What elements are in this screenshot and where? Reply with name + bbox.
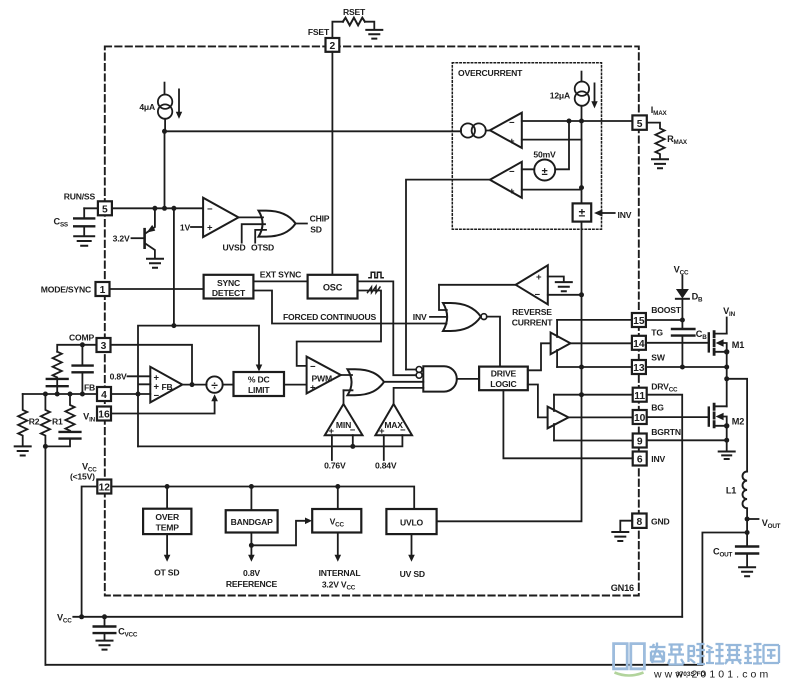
svg-text:LIMIT: LIMIT — [248, 385, 270, 395]
svg-text:LOGIC: LOGIC — [490, 379, 516, 389]
svg-text:0.8V: 0.8V — [110, 371, 127, 381]
polarity box (INV select) — [573, 203, 632, 221]
logo url text — [653, 669, 771, 681]
wire TG pin — [570, 342, 708, 345]
pin 4 FB — [84, 382, 111, 401]
svg-text:BOOST: BOOST — [651, 305, 682, 315]
wire SW node to M2/L1 — [724, 367, 747, 472]
svg-text:16: 16 — [98, 410, 110, 421]
driver buffer BG — [528, 385, 569, 441]
label VCC (bottom rail) — [57, 613, 72, 625]
svg-text:BG: BG — [651, 403, 664, 413]
svg-text:UVSD: UVSD — [222, 243, 245, 253]
pin 5 IMAX — [632, 105, 667, 130]
square wave symbol — [369, 272, 383, 278]
figure number (red) — [676, 671, 706, 678]
svg-text:TG: TG — [651, 328, 663, 338]
svg-text:INV: INV — [618, 210, 632, 220]
block OSC — [308, 275, 358, 299]
svg-text:M1: M1 — [732, 340, 744, 350]
wire BGRTN pin — [554, 439, 727, 441]
sawtooth symbol — [368, 286, 381, 292]
block % DC LIMIT — [234, 372, 285, 396]
mosfet M1 — [709, 318, 744, 370]
svg-text:5: 5 — [637, 119, 643, 130]
svg-text:±: ± — [542, 166, 548, 178]
svg-text:13: 13 — [633, 363, 645, 374]
svg-text:INTERNAL: INTERNAL — [319, 568, 361, 578]
svg-text:RUN/SS: RUN/SS — [64, 192, 96, 202]
pin 15 BOOST — [632, 305, 682, 327]
wire FORCED CONTINUOUS — [253, 291, 446, 324]
svg-text:−: − — [509, 118, 515, 129]
svg-text:OVERCURRENT: OVERCURRENT — [458, 68, 523, 78]
block VCC regulator — [312, 487, 361, 592]
svg-text:www.20101.com: www.20101.com — [653, 669, 771, 681]
svg-text:L1: L1 — [726, 486, 736, 496]
svg-text:11: 11 — [634, 391, 645, 402]
pin 9 BGRTN — [633, 427, 681, 448]
svg-text:+: + — [536, 272, 542, 283]
svg-text:0.8V: 0.8V — [243, 568, 260, 578]
logo site name (Chinese) — [650, 643, 780, 665]
resistor RMAX — [647, 123, 688, 159]
svg-text:−: − — [310, 362, 316, 373]
ground (R2) — [15, 446, 31, 455]
or-gate CHIP SD — [222, 211, 329, 253]
svg-text:OVER: OVER — [155, 512, 180, 522]
OVERCURRENT box title — [458, 68, 523, 78]
svg-text:6: 6 — [637, 455, 643, 466]
compensation cap (parallel COMP-FB) — [73, 345, 93, 394]
svg-text:MODE/SYNC: MODE/SYNC — [41, 285, 91, 295]
svg-text:5: 5 — [102, 205, 108, 216]
block DRIVE LOGIC — [479, 367, 528, 391]
svg-text:10: 10 — [634, 413, 646, 424]
wire EXT SYNC — [253, 270, 307, 282]
capacitor COUT — [713, 533, 758, 567]
svg-text:REFERENCE: REFERENCE — [226, 579, 278, 589]
wire VIN to divider — [111, 394, 218, 413]
svg-text:TEMP: TEMP — [156, 522, 180, 532]
inductor L1 — [726, 472, 747, 533]
svg-text:12μA: 12μA — [550, 91, 570, 101]
svg-text:MIN: MIN — [336, 420, 351, 430]
svg-text:CHIP: CHIP — [310, 213, 330, 223]
svg-text:EXT SYNC: EXT SYNC — [260, 270, 301, 280]
svg-text:SD: SD — [310, 225, 322, 235]
svg-text:% DC: % DC — [248, 374, 270, 384]
block SYNC DETECT — [204, 275, 254, 299]
svg-text:15: 15 — [633, 316, 645, 327]
svg-text:FB: FB — [162, 382, 173, 392]
wire 4uA to overcurrent sense — [162, 129, 461, 134]
wire DRVCC pin — [554, 395, 682, 617]
wire OSC ramp out to PWM - — [297, 291, 381, 366]
ground (M2 source) — [719, 452, 735, 460]
capacitor CSS — [54, 208, 95, 235]
label 0.76V — [324, 435, 346, 471]
wire GND pin to ground — [620, 521, 632, 531]
svg-text:−: − — [509, 167, 515, 178]
wire RUN/SS line — [84, 206, 203, 211]
ground (RMAX) — [652, 159, 668, 168]
svg-text:50mV: 50mV — [533, 149, 556, 159]
pin 14 TG — [632, 328, 663, 351]
comparator overcurrent 1 — [461, 113, 633, 148]
svg-text:FSET: FSET — [308, 27, 330, 37]
pin 6 INV — [633, 452, 666, 466]
comparator 1V (UVSD) — [180, 198, 239, 237]
comparator PWM — [307, 357, 341, 394]
svg-text:−: − — [154, 390, 160, 401]
pin 10 BG — [633, 403, 665, 425]
svg-text:1: 1 — [100, 285, 106, 296]
svg-text:GND: GND — [651, 516, 670, 526]
comparator MIN — [325, 390, 363, 437]
resistor R2 — [18, 394, 40, 445]
svg-text:±: ± — [579, 206, 586, 220]
wire pin1 to SYNC DETECT — [110, 288, 204, 290]
svg-text:−: − — [535, 290, 541, 301]
wire BG pin — [569, 416, 709, 418]
svg-text:REVERSE: REVERSE — [512, 307, 552, 317]
svg-text:OT SD: OT SD — [154, 568, 179, 578]
svg-text:SYNC: SYNC — [217, 278, 240, 288]
svg-text:1V: 1V — [180, 223, 191, 233]
pin 8 GND — [632, 514, 669, 529]
label GN16 — [611, 583, 634, 593]
svg-text:8: 8 — [637, 517, 643, 528]
svg-text:÷: ÷ — [211, 378, 218, 392]
svg-text:9: 9 — [637, 437, 643, 448]
diode DB — [676, 276, 703, 323]
compensation resistor (COMP-FB) — [53, 352, 62, 387]
wire SW pin — [557, 366, 727, 368]
wire VCC pin external — [82, 487, 98, 617]
wire EA output to COMP — [111, 345, 207, 387]
compensation cap (series) — [47, 379, 68, 394]
IC boundary dashed border — [105, 46, 639, 595]
capacitor CB — [672, 320, 707, 370]
logo book icon — [614, 644, 645, 669]
wire overcurrent comparator to and gate — [406, 180, 490, 370]
current sense symbol (double circle) — [461, 123, 486, 137]
svg-text:DRIVE: DRIVE — [491, 369, 517, 379]
svg-text:3703S FD: 3703S FD — [676, 671, 706, 678]
current source 4uA — [139, 83, 182, 132]
ground (COUT) — [739, 567, 755, 576]
block BANDGAP — [226, 487, 312, 589]
svg-text:OTSD: OTSD — [251, 243, 274, 253]
svg-text:+: + — [207, 223, 213, 234]
source 50mV — [533, 149, 556, 180]
svg-text:RSET: RSET — [343, 7, 366, 17]
pin 3 COMP — [69, 333, 110, 353]
svg-text:12: 12 — [99, 483, 111, 494]
capacitor CVCC — [94, 617, 138, 640]
wire RUN/SS node down — [173, 208, 175, 325]
wire FB sense down-left — [44, 446, 46, 664]
pin 1 MODE/SYNC — [41, 282, 110, 296]
feedforward resistor + cap — [43, 394, 81, 449]
block OVER TEMP — [143, 487, 191, 578]
nor gate (reverse current / INV / forced continuous) — [413, 285, 500, 367]
svg-text:(<15V): (<15V) — [70, 471, 95, 481]
svg-text:INV: INV — [413, 312, 427, 322]
ground (Q1) — [147, 259, 163, 268]
pin 13 SW — [632, 353, 666, 375]
label VOUT — [745, 517, 781, 531]
pin 5 RUN/SS — [64, 192, 112, 216]
ground (CVCC) — [97, 641, 113, 650]
error amp EA — [150, 367, 182, 403]
wire polarity box down to SW sense — [579, 222, 584, 395]
wire soft-start to EA + input — [136, 323, 177, 446]
wire FB to MIN/MAX inputs — [138, 435, 402, 449]
pin 12 VCC — [70, 462, 111, 494]
svg-text:3: 3 — [101, 341, 107, 352]
svg-text:R2: R2 — [29, 417, 40, 427]
svg-text:COMP: COMP — [69, 333, 94, 343]
svg-text:14: 14 — [633, 339, 645, 350]
svg-text:FORCED CONTINUOUS: FORCED CONTINUOUS — [283, 312, 377, 322]
pin 16 VIN — [83, 407, 111, 424]
wire VCC bottom rail — [73, 614, 682, 619]
svg-text:4: 4 — [101, 390, 107, 401]
wire FB node line — [23, 392, 97, 397]
svg-text:BANDGAP: BANDGAP — [231, 517, 274, 527]
svg-text:4μA: 4μA — [139, 102, 155, 112]
label 0.8V ref — [110, 371, 151, 381]
comparator overcurrent 2 (50mV) — [490, 121, 584, 203]
svg-text:+: + — [509, 136, 515, 147]
svg-text:UV SD: UV SD — [400, 569, 425, 579]
wire OSC square out to gate bubble — [358, 281, 417, 375]
block UVLO — [386, 509, 436, 579]
and gate — [406, 366, 479, 391]
wire %DC LIMIT to PWM + — [284, 384, 307, 386]
logo book reflection — [615, 673, 644, 676]
pin 2 FSET — [308, 27, 339, 52]
resistor R1 — [41, 394, 63, 446]
svg-text:SW: SW — [651, 353, 666, 363]
svg-text:+: + — [509, 186, 515, 197]
driver buffer TG — [528, 320, 571, 370]
svg-text:0.84V: 0.84V — [375, 461, 397, 471]
wire 4uA down to RUN/SS node — [164, 131, 166, 208]
divider circle — [206, 376, 233, 392]
svg-text:DETECT: DETECT — [212, 288, 246, 298]
svg-text:+: + — [310, 383, 316, 394]
svg-text:CURRENT: CURRENT — [512, 317, 554, 327]
svg-text:FB: FB — [84, 382, 95, 392]
wire VOUT feedback — [45, 530, 749, 665]
wire VCC pin internal rail — [111, 484, 414, 509]
comparator MAX — [375, 388, 423, 437]
svg-text:UVLO: UVLO — [400, 518, 424, 528]
wire COMP external — [57, 342, 96, 351]
comparator REVERSE CURRENT — [439, 265, 584, 327]
label VCC (boost diode) — [674, 265, 689, 277]
wire INV pin to drive logic — [503, 390, 632, 458]
ground (RSET) — [366, 30, 382, 39]
current source 12uA — [550, 72, 598, 121]
wire FSET pin to RSET — [332, 22, 374, 38]
svg-text:M2: M2 — [732, 417, 744, 427]
svg-text:3.2V: 3.2V — [113, 234, 130, 244]
svg-text:BGRTN: BGRTN — [651, 427, 681, 437]
ground (reverse current +) — [556, 282, 572, 291]
or gate (PWM/MIN) — [341, 369, 424, 395]
ground (CSS) — [74, 236, 94, 246]
wire DRVCC sense to UVLO — [437, 392, 584, 521]
wire FB line to EA - input — [111, 393, 150, 395]
svg-text:INV: INV — [651, 454, 665, 464]
pin 11 DRVCC — [633, 382, 678, 402]
transistor Q1 (3.2V clamp) — [113, 208, 156, 257]
svg-text:GN16: GN16 — [611, 583, 634, 593]
svg-text:−: − — [207, 204, 213, 215]
label VIN (M1 drain) — [723, 306, 735, 318]
wire pin2 to OSC — [331, 52, 333, 275]
ground (pin 8) — [612, 532, 628, 541]
svg-text:OSC: OSC — [323, 283, 343, 293]
svg-text:R1: R1 — [52, 417, 63, 427]
mosfet M2 — [709, 379, 744, 450]
wire RUN/SS to %DC LIMIT arrow — [174, 326, 262, 372]
resistor RSET — [343, 7, 366, 25]
label 0.84V — [375, 435, 397, 471]
OVERCURRENT dotted box — [452, 63, 601, 229]
svg-text:2: 2 — [330, 41, 336, 52]
svg-text:0.76V: 0.76V — [324, 461, 346, 471]
wire BOOST pin — [557, 319, 682, 321]
